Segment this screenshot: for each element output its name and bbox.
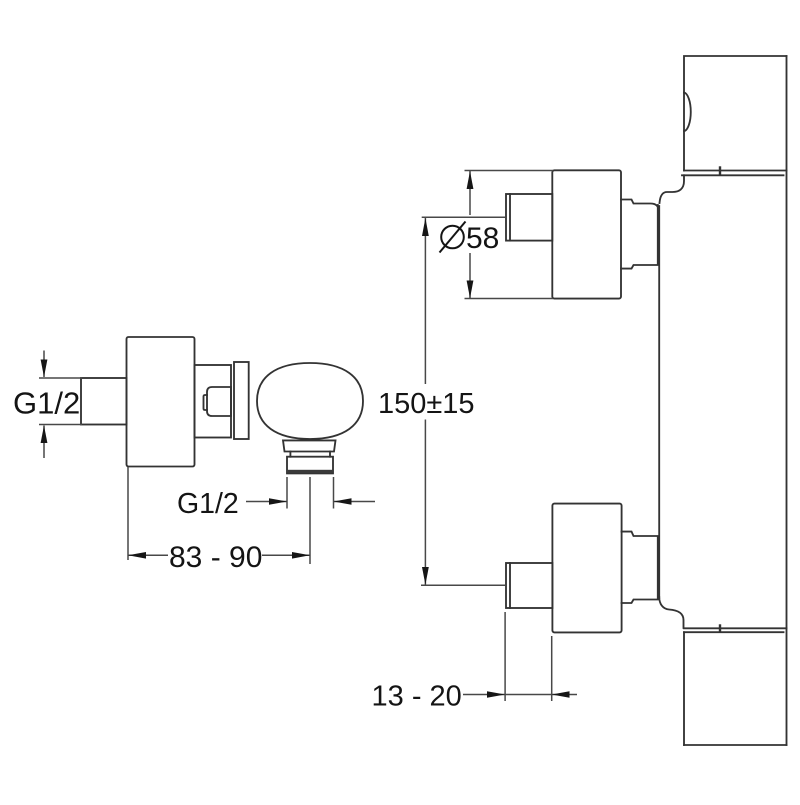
temperature knob <box>207 387 231 416</box>
wall plate bottom left edge <box>683 632 685 745</box>
svg-text:G1/2: G1/2 <box>13 386 80 421</box>
arrow G1/2 left down <box>41 360 48 378</box>
arrow 13-20 right <box>487 691 505 698</box>
upper valve stem inner line <box>509 194 511 241</box>
arrow o58 down <box>467 281 474 299</box>
dim 150 ext bottom <box>421 584 505 586</box>
svg-text:G1/2: G1/2 <box>177 488 239 520</box>
valve body left view <box>127 337 195 467</box>
arrow 83-90 left <box>128 552 146 559</box>
dim G1/2 left line top <box>43 351 45 378</box>
upper connector bottom edge <box>621 265 659 269</box>
wall plate bottom top edge <box>684 627 787 629</box>
arrow o58 up <box>467 171 474 189</box>
wall plate bottom second line <box>684 631 784 633</box>
lower connector bottom edge <box>622 600 660 604</box>
dim 13-20 line left <box>463 694 505 696</box>
dim 13-20 line mid <box>505 694 552 696</box>
dim 150 line top <box>424 218 426 384</box>
svg-text:150±15: 150±15 <box>378 388 475 420</box>
upper valve body <box>552 170 621 298</box>
knob tab <box>204 395 208 410</box>
wall plate top <box>684 56 787 171</box>
upper connector right edge <box>657 205 659 264</box>
arrow 150 up <box>422 218 429 236</box>
handle oval <box>257 363 363 439</box>
dim o58 line top <box>469 171 471 215</box>
ext line 13-20 left <box>504 612 506 701</box>
escutcheon plate <box>195 365 232 438</box>
dim G1/2 mid line right <box>334 501 376 503</box>
dim o58 line bottom <box>469 253 471 298</box>
lower connector right edge <box>657 537 659 599</box>
wall plate screw tick top <box>719 168 721 174</box>
lower connector top edge <box>622 532 660 536</box>
dim o58 ext bottom <box>465 298 554 300</box>
svg-text:13 - 20: 13 - 20 <box>372 681 462 713</box>
upper connector top edge <box>621 200 659 212</box>
dim o58 ext top <box>465 170 554 172</box>
lower valve body <box>552 504 621 633</box>
ext line 13-20 right <box>551 636 553 701</box>
plate arc bump <box>684 93 691 132</box>
dim G1/2 left ext bottom <box>39 424 82 426</box>
ext line body left <box>127 467 129 560</box>
dim 83-90 line left <box>128 554 168 556</box>
dim 150 line bottom <box>424 420 426 585</box>
spout collar <box>283 440 336 451</box>
arrow 83-90 right <box>292 552 310 559</box>
inlet stem G1/2 left <box>81 378 127 425</box>
arrow G1/2 mid right <box>269 498 287 505</box>
arrow G1/2 mid left <box>334 498 352 505</box>
dim G1/2 left ext top <box>39 377 82 379</box>
dim G1/2 mid line left <box>246 501 287 503</box>
ext line spout left <box>286 477 288 509</box>
wall plate screw tick bottom <box>719 626 721 632</box>
spout centerline <box>309 477 311 564</box>
lower S-curve <box>659 597 683 628</box>
svg-text:83 - 90: 83 - 90 <box>169 541 262 574</box>
dim 83-90 line right <box>262 554 310 556</box>
dim 150 ext top <box>422 216 505 218</box>
wall plate top bottom edge <box>684 170 787 172</box>
wall vertical line <box>786 56 788 745</box>
wall plate top second line <box>682 174 784 176</box>
spout step <box>290 452 330 457</box>
ext line spout right <box>333 477 335 509</box>
upper S-curve <box>660 175 685 203</box>
svg-text:58: 58 <box>466 222 499 255</box>
arrow 13-20 left <box>552 691 570 698</box>
dim 13-20 tail right <box>552 694 577 696</box>
arrow 150 down <box>422 567 429 585</box>
aerator <box>287 457 333 474</box>
pipe <box>658 206 660 598</box>
arrow G1/2 left up <box>41 426 48 444</box>
label diameter symbol <box>440 222 466 253</box>
cartridge housing <box>234 362 249 439</box>
dim G1/2 left line bottom <box>43 426 45 459</box>
aerator dark band <box>288 470 333 473</box>
wall plate bottom bottom edge <box>684 744 787 746</box>
lower valve stem <box>506 563 552 608</box>
lower valve stem inner line <box>509 563 511 608</box>
upper valve stem <box>506 194 552 241</box>
